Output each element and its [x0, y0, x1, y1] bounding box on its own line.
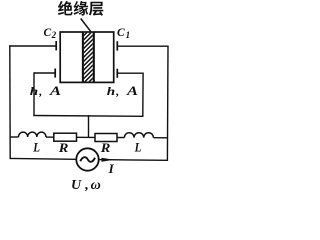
bottom wire right of source [99, 159, 168, 162]
label 绝缘层 (insulating layer) [58, 1, 103, 16]
capacitor plate bar lower-right [116, 69, 118, 78]
svg-text:L: L [32, 140, 40, 155]
AC source tilde [80, 157, 95, 162]
inductor L left [19, 132, 47, 137]
wire right L coil to rail right end [153, 137, 167, 139]
inner bottom wire [33, 115, 143, 118]
wire upper-right (C1 to right side) [117, 45, 168, 47]
wire inner-right vertical [142, 73, 144, 117]
resistor R left [54, 133, 77, 141]
svg-text:A: A [126, 83, 139, 98]
svg-text:,: , [115, 84, 119, 98]
wire upper-left (C2 to left side) [10, 45, 56, 47]
insulating layer hatch [80, 18, 97, 100]
svg-text:L: L [134, 140, 142, 155]
svg-text:h: h [107, 84, 116, 98]
capacitor plate bar lower-left [54, 69, 56, 78]
svg-text:,: , [38, 84, 42, 98]
current arrow [102, 158, 114, 162]
insulating layer right border [93, 32, 95, 82]
svg-text:R: R [58, 140, 69, 155]
inductor L right [124, 133, 153, 138]
bottom wire left of source [10, 157, 77, 160]
capacitor body outline [60, 32, 113, 82]
center vertical wire [88, 115, 90, 137]
resistor R right [95, 134, 117, 142]
wire R box to center junction to right R box [77, 136, 96, 138]
capacitor C1 plate bar upper-right [116, 41, 118, 50]
wire inner-left vertical [33, 72, 35, 115]
wire L coil to R box left [46, 136, 54, 138]
wire lower-left [34, 72, 55, 74]
wire right R box to right L coil [117, 137, 124, 139]
svg-text:U ,ω: U ,ω [71, 178, 101, 193]
svg-text:A: A [49, 83, 62, 98]
svg-text:R: R [100, 140, 111, 155]
capacitor C2 plate bar upper-left [55, 41, 57, 50]
svg-text:I: I [108, 161, 115, 176]
AC source circle [76, 148, 98, 170]
wire rail left end to L coil [10, 136, 19, 138]
svg-text:h: h [30, 84, 39, 98]
wire lower-right [117, 72, 143, 74]
insulating layer left border [82, 32, 84, 82]
wire left outer vertical [9, 45, 11, 159]
leader line to insulating layer [81, 19, 91, 32]
wire right outer vertical [166, 46, 169, 162]
